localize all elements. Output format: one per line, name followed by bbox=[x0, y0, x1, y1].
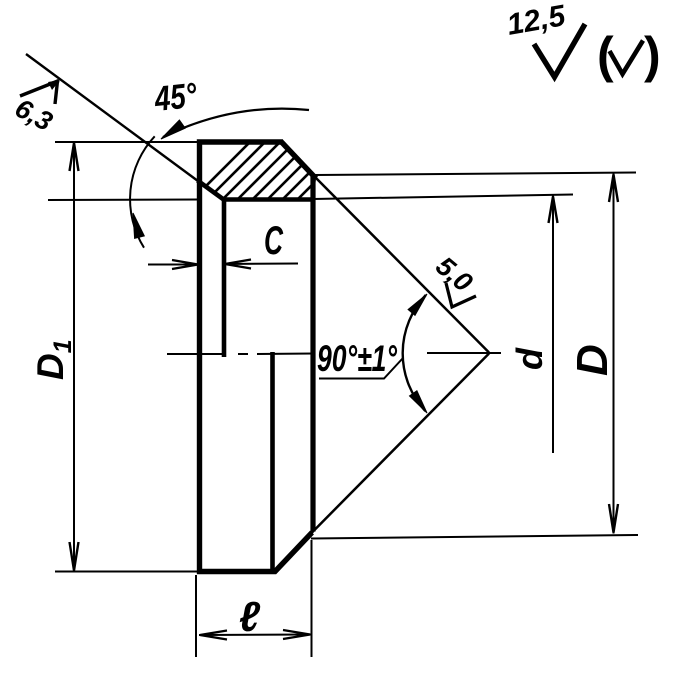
leader under 90 label bbox=[319, 358, 403, 379]
hatching of sectioned wall bbox=[186, 134, 393, 206]
arrow C left (points right) bbox=[172, 260, 198, 269]
arrow d top bbox=[549, 197, 558, 224]
cone lower edge to apex bbox=[311, 354, 489, 534]
arrow l right bbox=[283, 630, 310, 639]
svg-text:D: D bbox=[568, 344, 617, 376]
cone upper edge to apex bbox=[316, 178, 489, 353]
roughness 5,0 check on cone line bbox=[446, 283, 476, 307]
extension line bottom-left (y572) bbox=[55, 571, 199, 573]
arrow D top bbox=[609, 175, 618, 203]
svg-text:C: C bbox=[264, 219, 284, 263]
bore top line bbox=[222, 197, 314, 202]
inner vertical upper (bore wall) bbox=[222, 200, 227, 358]
arrow on 45 arc (lower, points up) bbox=[133, 213, 144, 238]
45-deg leader curve bbox=[163, 109, 309, 137]
45-deg measurement arc bbox=[130, 136, 155, 247]
arrow C right (points left) bbox=[225, 260, 251, 269]
arrow D1 bottom bbox=[70, 542, 79, 571]
part outline: upper 45-deg chamfer bbox=[281, 142, 316, 179]
arrow l left bbox=[200, 631, 227, 640]
d top extension line bbox=[313, 195, 573, 200]
part outline: right edge bbox=[310, 177, 315, 532]
extension line top-left (y142) bbox=[55, 141, 199, 143]
bore line left extension bbox=[48, 199, 200, 202]
l extension right bbox=[311, 540, 313, 657]
D top extension line bbox=[315, 173, 636, 176]
arrow 45 leader bbox=[161, 120, 185, 139]
arrow tip 6,3 bbox=[48, 80, 60, 90]
center line (dash-dot axis) bbox=[167, 353, 501, 354]
inner vertical lower bbox=[270, 352, 275, 571]
svg-text:90°±1°: 90°±1° bbox=[317, 338, 397, 379]
dimension C line right part bbox=[224, 263, 298, 266]
long 45-deg chamfer extension diagonal bbox=[26, 54, 223, 200]
dimension C line left part bbox=[148, 264, 199, 266]
svg-text:45°: 45° bbox=[152, 76, 199, 119]
part outline: top, left, bottom, lower chamfer bbox=[200, 142, 313, 572]
dimension line D bbox=[613, 174, 615, 534]
big check mark bbox=[534, 24, 585, 77]
arrow D bottom bbox=[609, 504, 618, 533]
inner left chamfer bbox=[198, 181, 226, 201]
svg-text:): ) bbox=[644, 27, 661, 83]
dimension line l bbox=[199, 634, 311, 637]
arrow 90 arc bottom bbox=[410, 391, 428, 413]
dimension line d bbox=[552, 196, 554, 454]
svg-text:d: d bbox=[509, 347, 550, 370]
svg-text:ℓ: ℓ bbox=[239, 593, 260, 640]
dimension line D1 bbox=[73, 142, 75, 572]
D bottom extension line bbox=[311, 535, 638, 539]
small check in parens bbox=[610, 41, 644, 75]
arrow 90 arc top bbox=[408, 294, 427, 315]
l extension left bbox=[195, 575, 197, 657]
90-deg measurement arc bbox=[403, 295, 426, 411]
roughness 6,3 symbol on diagonal bbox=[20, 81, 59, 105]
arrow D1 top bbox=[70, 143, 79, 171]
